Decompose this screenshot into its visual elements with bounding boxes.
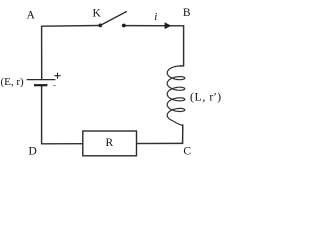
wire battery to A xyxy=(41,26,43,79)
current arrow i head xyxy=(165,22,172,29)
svg-text:R: R xyxy=(105,137,113,149)
wire A to switch K xyxy=(42,25,101,28)
bottom wire C to D xyxy=(42,142,183,144)
svg-text:B: B xyxy=(183,7,191,19)
inductor L coil xyxy=(167,66,185,121)
resistor R box xyxy=(83,131,137,156)
battery minus mark xyxy=(53,85,55,87)
switch K right contact xyxy=(122,24,126,28)
battery short plate (-) xyxy=(34,84,47,86)
svg-text:D: D xyxy=(28,146,36,158)
switch K left contact xyxy=(98,24,102,28)
battery long plate (+) xyxy=(27,79,56,81)
svg-text:(L, r′): (L, r′) xyxy=(190,89,222,103)
inductor exit to wire xyxy=(172,121,183,126)
wire switch to B xyxy=(124,25,184,27)
left wire D up to battery xyxy=(41,85,43,144)
battery plus sign xyxy=(54,73,60,79)
inductor top jog xyxy=(180,65,184,67)
svg-text:A: A xyxy=(26,10,35,22)
svg-text:(E, r): (E, r) xyxy=(1,76,25,88)
wire inductor to C xyxy=(182,125,184,143)
svg-text:i: i xyxy=(154,11,157,23)
svg-text:K: K xyxy=(92,8,101,20)
wire B down to inductor xyxy=(183,26,185,66)
switch K blade xyxy=(100,12,126,26)
svg-text:C: C xyxy=(183,145,191,157)
